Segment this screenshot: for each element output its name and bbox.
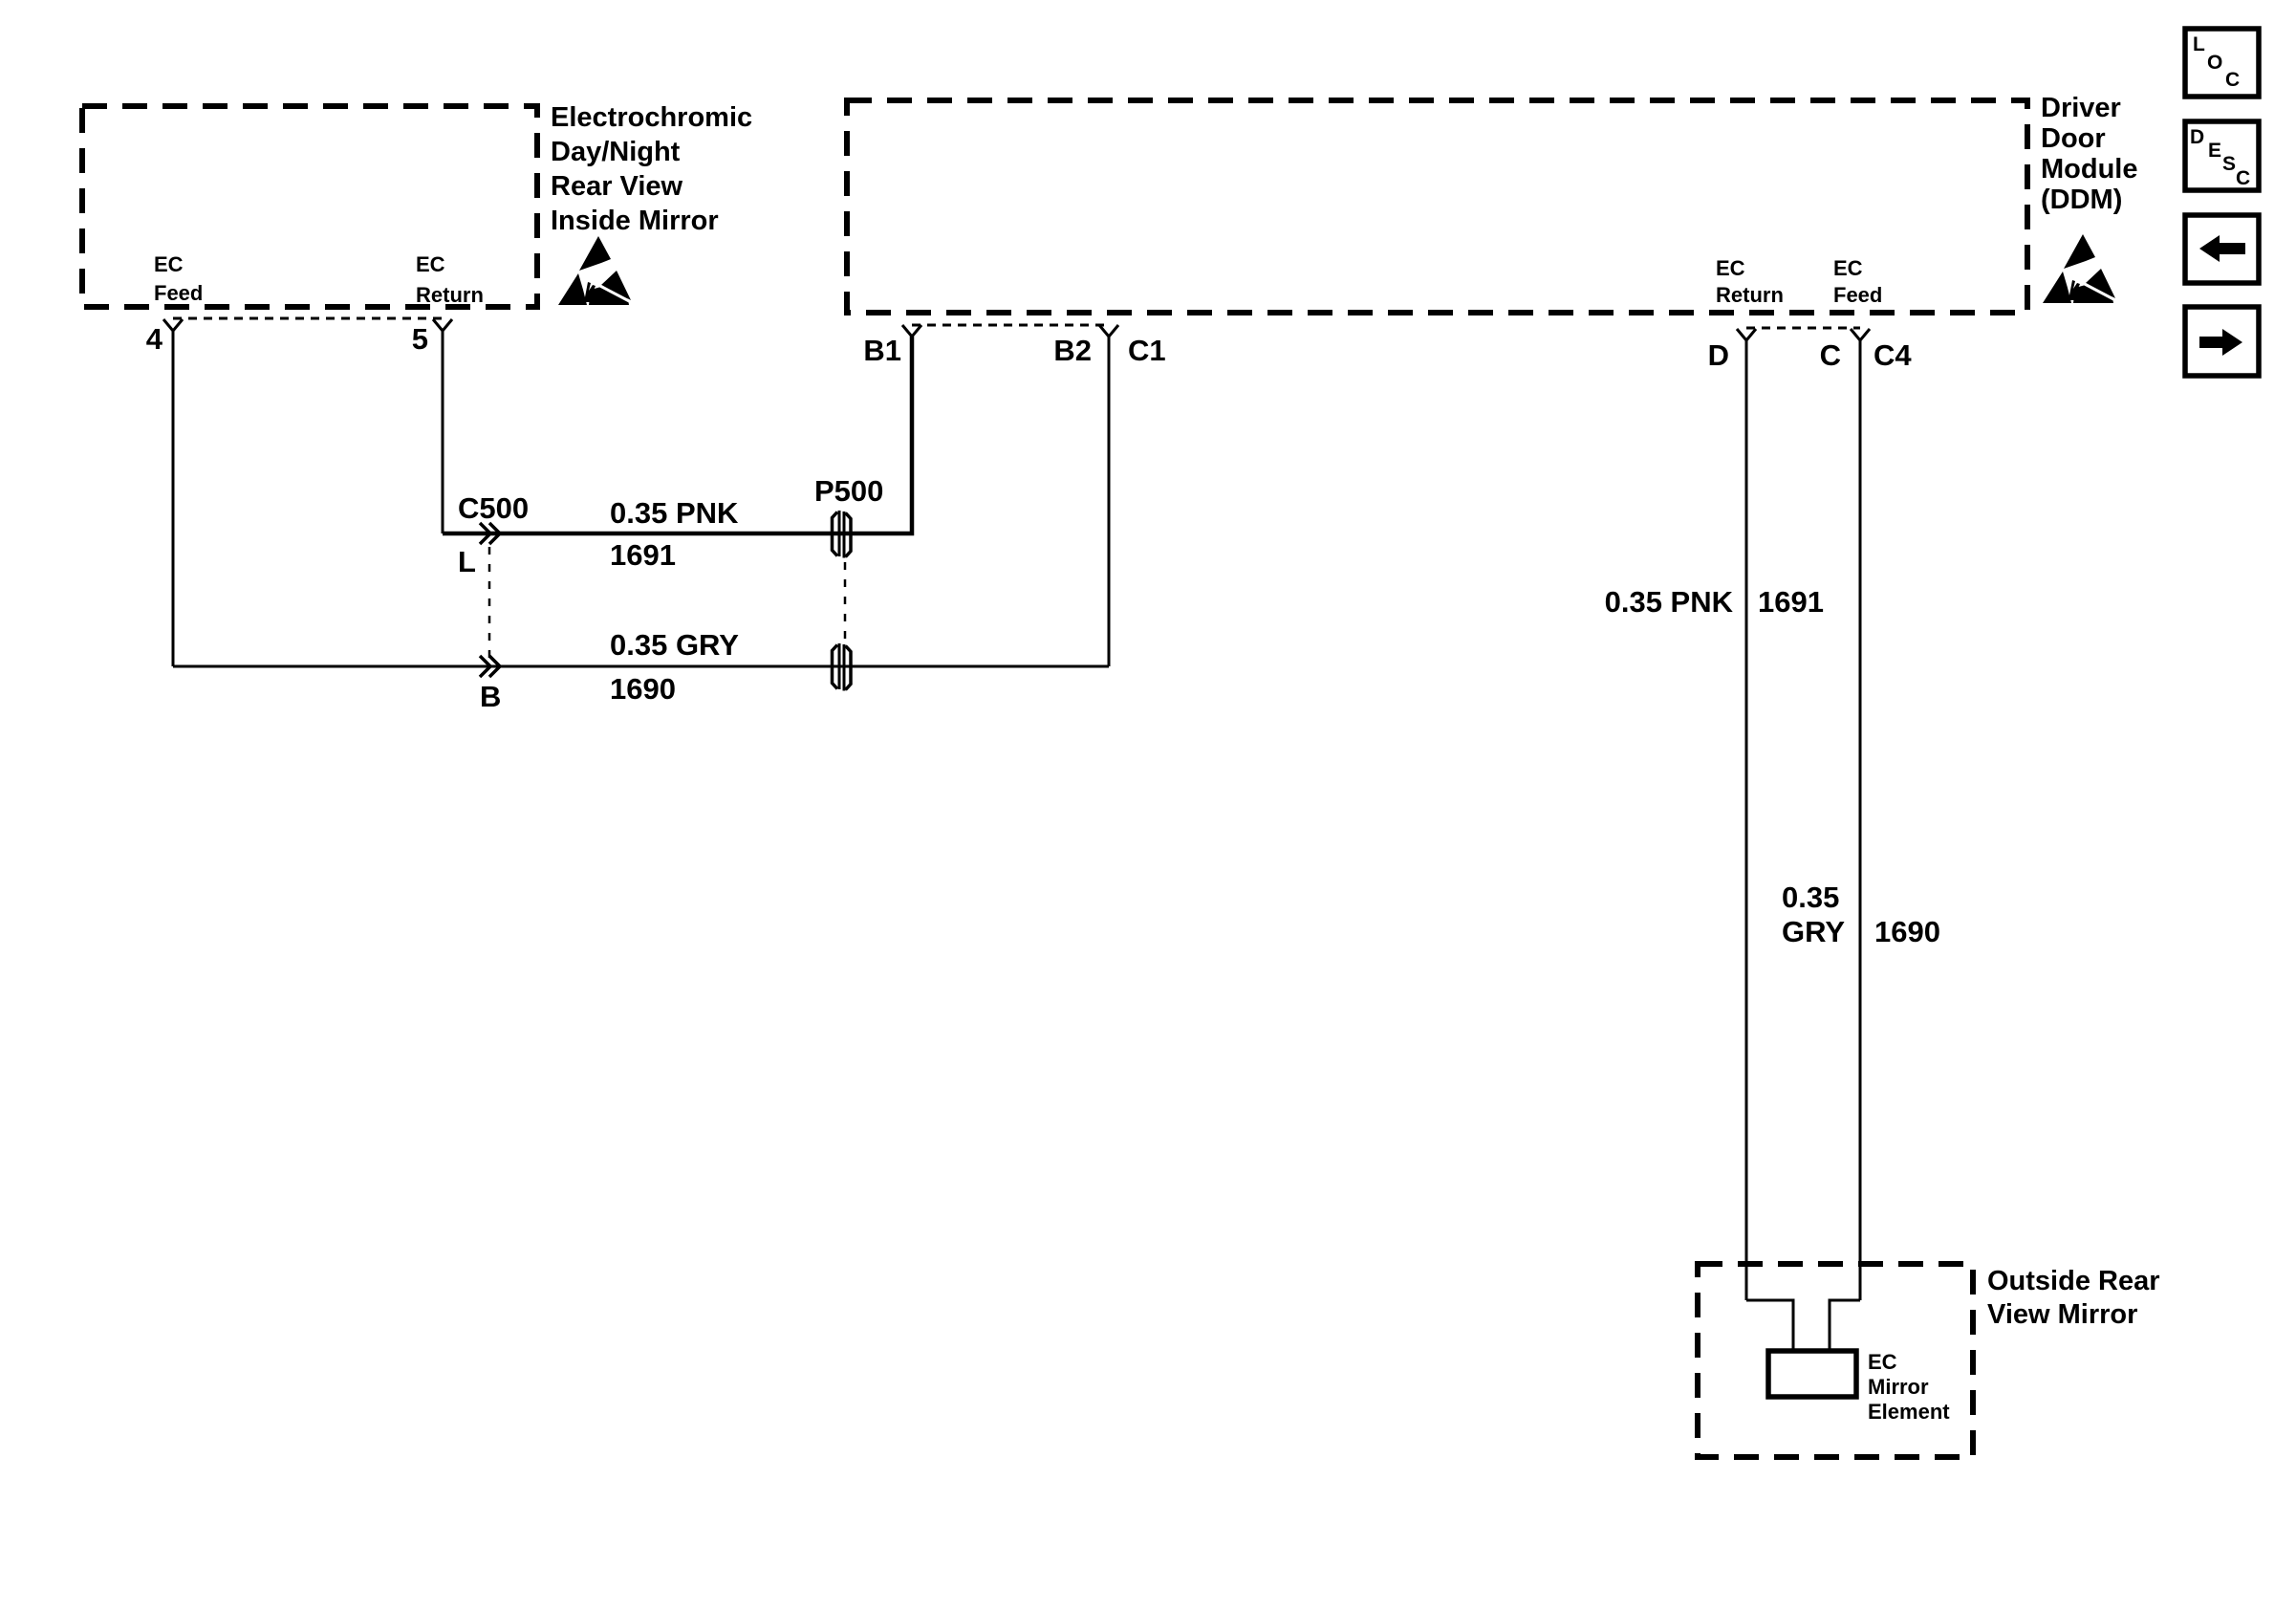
svg-text:Feed: Feed xyxy=(1833,283,1882,307)
dashed link C500 xyxy=(488,547,491,663)
connector C500 pass-through L xyxy=(480,523,500,544)
svg-text:EC: EC xyxy=(1833,256,1863,280)
label Outside Rear View Mirror xyxy=(1987,1266,2160,1330)
svg-text:D: D xyxy=(2190,126,2204,148)
wire EC Feed C4 vertical xyxy=(1859,340,1862,1300)
pin 5 terminal xyxy=(433,319,452,331)
svg-text:C: C xyxy=(2236,167,2250,189)
connector face dashed line (DDM D-C) xyxy=(1746,327,1860,330)
svg-text:E: E xyxy=(2208,140,2221,162)
svg-text:C: C xyxy=(1820,338,1841,372)
svg-text:Inside Mirror: Inside Mirror xyxy=(551,206,719,236)
wire B2 vertical xyxy=(1108,337,1111,666)
label Driver Door Module (DDM) xyxy=(2041,93,2138,215)
wire 0.35 GRY 1690 horizontal xyxy=(173,665,1109,668)
svg-text:C500: C500 xyxy=(458,491,529,525)
svg-text:C: C xyxy=(2225,69,2240,91)
svg-text:Mirror: Mirror xyxy=(1868,1375,1929,1399)
svg-text:L: L xyxy=(458,545,476,578)
wire 0.35 PNK 1691 horizontal to B1 xyxy=(443,337,912,533)
svg-text:B2: B2 xyxy=(1053,334,1092,367)
svg-text:0.35: 0.35 xyxy=(1782,881,1839,914)
svg-text:Electrochromic: Electrochromic xyxy=(551,102,752,133)
pin 4 terminal xyxy=(163,319,183,331)
EC mirror element xyxy=(1768,1351,1856,1397)
button forward arrow xyxy=(2185,307,2259,376)
svg-text:GRY: GRY xyxy=(1782,915,1845,948)
wire pin4 vertical xyxy=(172,331,175,666)
dashed link P500 xyxy=(844,562,847,642)
svg-text:Door: Door xyxy=(2041,123,2106,154)
button DESC xyxy=(2185,121,2259,190)
svg-text:Day/Night: Day/Night xyxy=(551,137,681,167)
svg-text:Module: Module xyxy=(2041,154,2138,185)
svg-text:4: 4 xyxy=(146,322,163,356)
svg-text:Feed: Feed xyxy=(154,281,203,305)
wire pin5 vertical xyxy=(442,331,444,533)
svg-text:Driver: Driver xyxy=(2041,93,2121,123)
svg-text:1690: 1690 xyxy=(1874,915,1940,948)
pin label EC Feed (DDM) xyxy=(1833,256,1882,307)
button LOC xyxy=(2185,29,2259,97)
svg-text:1691: 1691 xyxy=(1758,585,1824,619)
svg-text:P500: P500 xyxy=(814,474,883,508)
pin label EC Feed xyxy=(154,252,203,305)
svg-text:Rear View: Rear View xyxy=(551,171,683,202)
pin B2 terminal xyxy=(1099,325,1118,337)
connector face dashed line (mirror 4-5) xyxy=(173,317,443,320)
svg-text:0.35 PNK: 0.35 PNK xyxy=(1605,585,1734,619)
pin D terminal xyxy=(1737,329,1756,340)
pin label EC Return xyxy=(416,252,484,307)
svg-text:C4: C4 xyxy=(1874,338,1912,372)
connector face dashed line (DDM B1-B2) xyxy=(912,324,1109,327)
svg-text:B1: B1 xyxy=(863,334,901,367)
wire jog into mirror element (left) xyxy=(1746,1300,1793,1351)
svg-text:L: L xyxy=(2193,33,2205,55)
label EC Mirror Element xyxy=(1868,1350,1950,1424)
svg-text:Outside Rear: Outside Rear xyxy=(1987,1266,2160,1296)
svg-text:(DDM): (DDM) xyxy=(2041,185,2122,215)
inline connector P500 lower xyxy=(833,643,852,691)
wire EC Return D vertical xyxy=(1745,340,1748,1300)
Electrochromic Inside Mirror component box xyxy=(82,106,537,307)
ESD symbol (DDM) xyxy=(2043,234,2117,303)
svg-text:0.35 GRY: 0.35 GRY xyxy=(610,628,739,662)
ESD symbol (inside mirror) xyxy=(558,236,633,305)
svg-text:0.35 PNK: 0.35 PNK xyxy=(610,496,739,530)
inline connector P500 upper xyxy=(833,511,852,558)
svg-text:EC: EC xyxy=(1716,256,1745,280)
wire jog into mirror element (right) xyxy=(1830,1300,1860,1351)
button back arrow xyxy=(2185,215,2259,283)
svg-text:1690: 1690 xyxy=(610,672,676,706)
svg-text:Return: Return xyxy=(1716,283,1784,307)
svg-text:EC: EC xyxy=(1868,1350,1897,1374)
svg-text:O: O xyxy=(2207,52,2222,74)
svg-text:C1: C1 xyxy=(1128,334,1166,367)
Driver Door Module component box xyxy=(847,100,2027,313)
label Electrochromic Day/Night Rear View Inside Mirror xyxy=(551,102,752,236)
svg-text:Return: Return xyxy=(416,283,484,307)
svg-text:5: 5 xyxy=(412,322,428,356)
pin B1 terminal xyxy=(902,325,921,337)
pin label EC Return (DDM) xyxy=(1716,256,1784,307)
svg-text:View Mirror: View Mirror xyxy=(1987,1299,2137,1330)
svg-text:Element: Element xyxy=(1868,1400,1950,1424)
svg-text:B: B xyxy=(480,680,501,713)
svg-text:EC: EC xyxy=(154,252,184,276)
pin C terminal xyxy=(1851,329,1870,340)
svg-text:1691: 1691 xyxy=(610,538,676,572)
connector C500 pass-through B xyxy=(480,656,500,677)
svg-text:EC: EC xyxy=(416,252,445,276)
svg-text:D: D xyxy=(1708,338,1729,372)
svg-text:S: S xyxy=(2222,153,2236,175)
Outside Rear View Mirror component box xyxy=(1698,1264,1973,1457)
